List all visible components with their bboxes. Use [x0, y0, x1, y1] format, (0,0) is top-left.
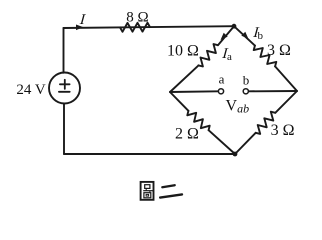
resistor R5 3ohm bottom-right zigzag	[256, 112, 276, 134]
arrowhead current I	[76, 25, 84, 31]
caption character Er (two) drawn as strokes	[160, 185, 182, 197]
terminal a open circle	[218, 89, 223, 94]
resistor R1 8ohm zigzag	[120, 23, 150, 32]
label Ia	[220, 45, 229, 62]
wire left vertical top (source to top-left corner)	[63, 28, 65, 73]
label I (current, italic)	[78, 11, 87, 28]
svg-text:8 Ω: 8 Ω	[126, 9, 148, 25]
svg-text:b: b	[243, 73, 250, 88]
wire bridge branch top-right (T to R)	[234, 26, 297, 91]
caption character Tu (figure) drawn as strokes	[141, 182, 154, 200]
svg-text:2 Ω: 2 Ω	[175, 126, 199, 143]
wire bridge branch top-left (T to L)	[170, 26, 234, 92]
svg-text:Vab: Vab	[226, 98, 250, 116]
voltage source V1 circle	[49, 73, 80, 104]
wire middle right (terminal b to R)	[248, 90, 297, 92]
svg-text:I: I	[78, 11, 87, 28]
junction dot node T (top)	[232, 24, 237, 29]
arrowhead current Ia	[221, 33, 228, 40]
wire left vertical bottom (source to bottom-left corner)	[63, 104, 65, 154]
resistor R4 2ohm zigzag	[187, 111, 209, 130]
wire bridge branch bottom-right (B to R)	[235, 91, 297, 154]
svg-text:b: b	[258, 30, 264, 42]
label Ib	[251, 24, 260, 41]
svg-text:24 V: 24 V	[16, 82, 45, 98]
wire bridge branch bottom-left (L to B)	[170, 92, 235, 154]
resistor R2 10ohm zigzag	[199, 44, 218, 66]
svg-text:a: a	[219, 72, 225, 87]
svg-text:a: a	[227, 51, 232, 63]
resistor R3 3ohm top-right zigzag	[254, 46, 277, 67]
plus-minus symbol inside source	[59, 80, 70, 92]
svg-text:3 Ω: 3 Ω	[267, 42, 291, 59]
wire top horizontal	[64, 26, 235, 28]
terminal b open circle	[243, 89, 248, 94]
arrowhead current Ib	[241, 32, 248, 39]
wire middle left (L to terminal a)	[170, 90, 218, 93]
svg-text:3 Ω: 3 Ω	[271, 122, 295, 139]
svg-text:10 Ω: 10 Ω	[167, 43, 199, 60]
wire bottom horizontal	[64, 153, 235, 155]
junction dot node B (bottom)	[233, 152, 238, 157]
